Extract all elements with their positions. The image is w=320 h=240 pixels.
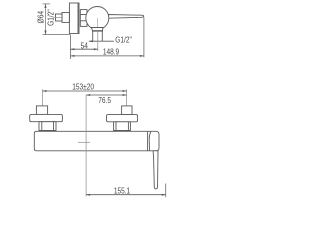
side view: diameter dimension Ø64 bbox=[43, 4, 71, 35]
lever tip extension line bbox=[143, 17, 145, 57]
outlet collar bbox=[92, 28, 104, 31]
svg-text:148.9: 148.9 bbox=[103, 47, 119, 57]
dimension 76.5 line bbox=[86, 94, 127, 96]
G1/2 leader line bbox=[89, 40, 114, 42]
handle tip extension line bbox=[165, 184, 167, 198]
left inlet extension line bbox=[41, 89, 43, 106]
outlet extension line bbox=[97, 31, 99, 51]
outlet pipe right line bbox=[101, 32, 103, 42]
wall pipe rect A bbox=[56, 14, 63, 21]
dimension 148.9 line bbox=[70, 55, 143, 57]
leader arrow bbox=[89, 40, 93, 42]
right nut facet left bbox=[115, 122, 117, 131]
nut facet line upper bbox=[80, 14, 87, 16]
right escutcheon bbox=[107, 115, 138, 122]
nut facet line lower bbox=[80, 20, 87, 22]
wall pipe rect B bbox=[62, 13, 69, 23]
svg-text:G1/2": G1/2" bbox=[115, 35, 132, 45]
lever handle (side) bbox=[107, 15, 144, 19]
right nut bottom edge bbox=[114, 130, 131, 132]
right nut facet right bbox=[127, 122, 129, 131]
valve body circle bbox=[86, 7, 109, 30]
dimension 153 line bbox=[42, 90, 126, 92]
dimension 155.1 line bbox=[86, 194, 166, 196]
right inlet stub bbox=[122, 106, 132, 115]
handle joint line bbox=[147, 131, 149, 151]
mixer body bbox=[34, 131, 159, 151]
arrow down bbox=[44, 31, 46, 35]
left nut bbox=[39, 122, 56, 132]
hex nut (side) bbox=[80, 10, 87, 27]
arrow up bbox=[44, 4, 46, 8]
extension tick bottom bbox=[43, 34, 71, 36]
svg-text:Ø64: Ø64 bbox=[36, 11, 46, 23]
left nut facet left bbox=[41, 122, 43, 132]
body center cross bbox=[78, 141, 90, 143]
extension tick top bbox=[43, 3, 51, 5]
right inlet extension line bbox=[126, 89, 128, 106]
dimension line vertical bbox=[45, 4, 47, 34]
pipe centerline bbox=[54, 17, 62, 19]
body axis extension line bbox=[85, 95, 87, 196]
svg-text:54: 54 bbox=[81, 40, 88, 50]
escutcheon flange (side) bbox=[69, 3, 79, 34]
svg-text:153±20: 153±20 bbox=[72, 81, 94, 91]
circle centerline down bbox=[96, 18, 98, 29]
handle skirt edge bbox=[149, 131, 151, 151]
svg-text:76.5: 76.5 bbox=[98, 95, 111, 105]
flange right face double line bbox=[77, 3, 79, 34]
outlet pipe left line bbox=[92, 32, 94, 42]
wall extension line bbox=[69, 35, 71, 60]
right nut bbox=[114, 122, 131, 131]
handle blade bbox=[153, 151, 158, 189]
left nut bottom edge bbox=[39, 130, 56, 132]
dimension 54 line bbox=[70, 48, 97, 50]
left nut facet right bbox=[53, 122, 55, 132]
left escutcheon bbox=[30, 114, 63, 121]
collar bottom thick edge bbox=[92, 30, 103, 32]
left inlet stub bbox=[36, 106, 47, 115]
